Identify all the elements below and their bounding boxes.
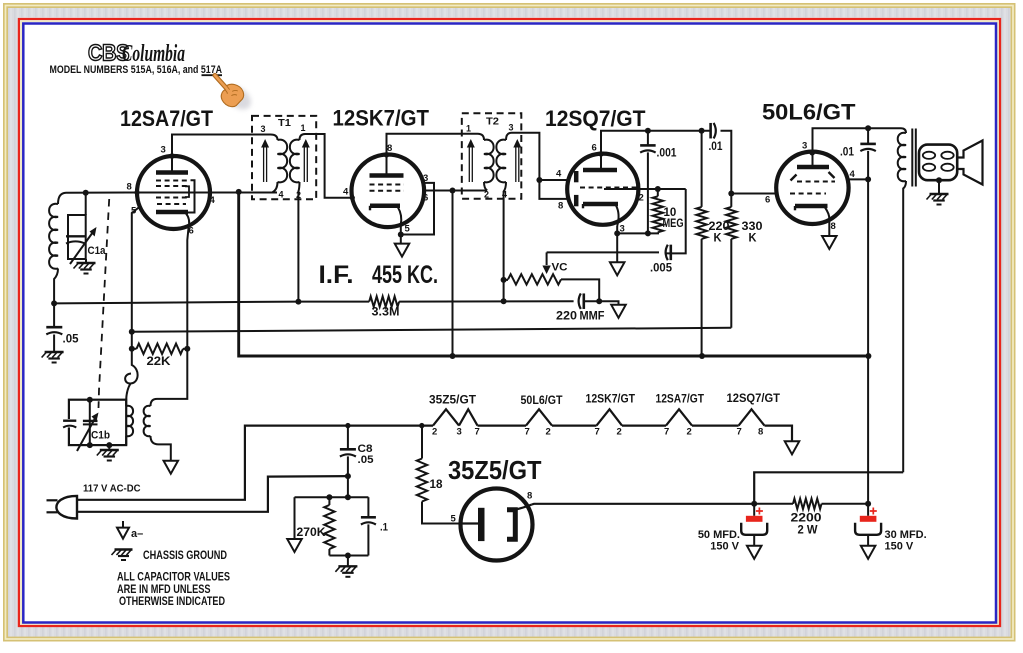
svg-text:455 KC.: 455 KC. [372, 261, 438, 289]
svg-text:ARE IN MFD UNLESS: ARE IN MFD UNLESS [117, 584, 211, 596]
svg-text:4: 4 [556, 169, 562, 180]
svg-text:8: 8 [558, 201, 563, 212]
svg-text:7: 7 [595, 427, 600, 438]
svg-text:MODEL NUMBERS 515A, 516A, and: MODEL NUMBERS 515A, 516A, and 517A [50, 64, 223, 76]
svg-text:K: K [714, 233, 723, 245]
svg-text:18: 18 [430, 479, 444, 491]
svg-text:CHASSIS GROUND: CHASSIS GROUND [143, 550, 227, 562]
svg-text:8: 8 [527, 491, 532, 502]
svg-text:50L6/GT: 50L6/GT [521, 395, 563, 407]
svg-text:8: 8 [387, 143, 392, 154]
svg-text:2: 2 [432, 427, 437, 438]
svg-text:4: 4 [279, 190, 284, 200]
svg-text:OTHERWISE INDICATED: OTHERWISE INDICATED [119, 596, 225, 608]
svg-text:MEG: MEG [663, 218, 684, 230]
svg-text:8: 8 [127, 182, 132, 193]
svg-text:220: 220 [709, 221, 730, 233]
svg-text:5: 5 [405, 224, 411, 235]
svg-text:7: 7 [737, 427, 742, 438]
svg-text:C1a: C1a [88, 245, 107, 257]
svg-text:.005: .005 [650, 263, 673, 275]
svg-text:3: 3 [802, 141, 807, 152]
svg-text:4: 4 [343, 187, 349, 198]
svg-text:.01: .01 [709, 141, 724, 153]
svg-text:4: 4 [850, 169, 856, 180]
svg-text:3: 3 [509, 123, 514, 133]
svg-text:6: 6 [765, 195, 770, 206]
svg-text:330: 330 [742, 221, 763, 233]
svg-text:2 W: 2 W [798, 525, 818, 537]
svg-text:30 MFD.: 30 MFD. [885, 529, 927, 541]
svg-text:12SK7/GT: 12SK7/GT [333, 106, 430, 131]
svg-text:7: 7 [475, 427, 480, 438]
svg-text:220: 220 [556, 311, 577, 323]
svg-text:.001: .001 [657, 148, 678, 160]
svg-text:270K: 270K [297, 527, 327, 539]
svg-text:117 V AC-DC: 117 V AC-DC [83, 484, 141, 495]
svg-text:12SQ7/GT: 12SQ7/GT [545, 106, 646, 131]
svg-text:8: 8 [831, 221, 836, 232]
svg-text:K: K [749, 233, 758, 245]
svg-text:.05: .05 [63, 334, 80, 346]
svg-text:150 V: 150 V [710, 541, 739, 553]
svg-text:6: 6 [189, 226, 194, 237]
svg-text:I.F.: I.F. [319, 261, 354, 289]
svg-text:T2: T2 [486, 116, 499, 128]
svg-text:2: 2 [617, 427, 622, 438]
svg-text:12SA7/GT: 12SA7/GT [656, 393, 705, 405]
svg-text:22K: 22K [147, 356, 172, 368]
svg-text:2: 2 [546, 427, 551, 438]
svg-text:12SQ7/GT: 12SQ7/GT [727, 393, 781, 405]
svg-text:8: 8 [758, 427, 763, 438]
svg-text:6: 6 [423, 192, 428, 203]
svg-text:7: 7 [525, 427, 530, 438]
svg-text:2: 2 [687, 427, 692, 438]
svg-text:.05: .05 [358, 454, 374, 466]
svg-text:C1b: C1b [91, 430, 110, 442]
svg-text:12SA7/GT: 12SA7/GT [120, 106, 213, 131]
svg-text:2200: 2200 [791, 513, 822, 525]
svg-text:3.3M: 3.3M [372, 307, 400, 319]
svg-text:2: 2 [639, 193, 644, 204]
svg-text:3: 3 [261, 124, 266, 134]
svg-text:12SK7/GT: 12SK7/GT [586, 394, 636, 406]
svg-text:50L6/GT: 50L6/GT [762, 100, 856, 125]
svg-text:3: 3 [457, 427, 462, 438]
svg-text:7: 7 [664, 427, 669, 438]
svg-text:.01: .01 [840, 147, 855, 159]
svg-text:150 V: 150 V [885, 541, 914, 553]
svg-text:ALL CAPACITOR VALUES: ALL CAPACITOR VALUES [117, 572, 230, 584]
svg-text:MMF: MMF [580, 311, 605, 323]
svg-text:35Z5/GT: 35Z5/GT [429, 395, 476, 407]
svg-text:1: 1 [301, 123, 306, 133]
svg-text:6: 6 [592, 143, 597, 154]
svg-text:4: 4 [210, 195, 216, 206]
svg-text:1: 1 [466, 124, 471, 134]
svg-text:VC: VC [552, 262, 568, 274]
svg-text:.1: .1 [380, 522, 388, 534]
svg-text:35Z5/GT: 35Z5/GT [448, 455, 542, 485]
svg-text:T1: T1 [278, 117, 291, 129]
svg-text:3: 3 [161, 145, 166, 156]
svg-text:a–: a– [131, 528, 143, 540]
svg-text:50 MFD.: 50 MFD. [698, 529, 740, 541]
